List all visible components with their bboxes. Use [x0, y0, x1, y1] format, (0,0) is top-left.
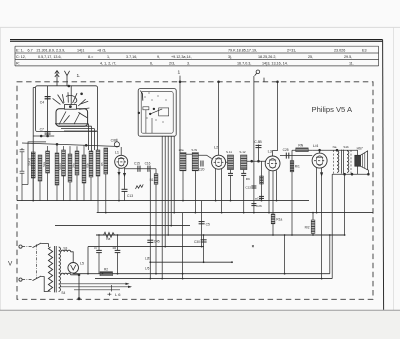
- rectifier filament: [71, 265, 76, 270]
- valve L2 leg a: [215, 169, 217, 201]
- wire IF to grid: [198, 155, 211, 158]
- AVC bus wire: [55, 225, 190, 227]
- heater line 1: [60, 283, 128, 285]
- capacitor C16: [147, 166, 149, 172]
- speaker horn: [360, 151, 367, 170]
- resistor R1: [46, 151, 50, 173]
- node junction (232,262.2): [231, 261, 233, 263]
- wire S3 to rectifier: [71, 252, 74, 263]
- svg-text:3.: 3.: [187, 62, 190, 66]
- svg-text:11.: 11.: [349, 62, 354, 66]
- starburst contact rays: [58, 95, 64, 104]
- chassis dashed boundary box: [17, 82, 373, 299]
- decoupling wire: [150, 261, 232, 263]
- bank drop wires to earth bus: [33, 145, 106, 213]
- svg-text:21.301.8.9, 2.3.9,: 21.301.8.9, 2.3.9,: [37, 48, 66, 52]
- svg-text:C: 12,: C: 12,: [16, 55, 26, 59]
- node junction (165.2,246.6): [164, 246, 166, 248]
- wire anode supply line: [280, 155, 312, 157]
- valve L2: [212, 155, 226, 169]
- node junction (162.2,278.6): [161, 278, 163, 280]
- valve L1 leg a arrow: [118, 172, 120, 175]
- wire left rail: [32, 88, 34, 201]
- svg-text:C30: C30: [194, 240, 200, 244]
- valve L2 grid dashes: [214, 161, 216, 163]
- earth terminal Y: [64, 71, 69, 82]
- node junction (253.9,212.6): [253, 212, 255, 214]
- svg-text:1.: 1.: [77, 73, 81, 79]
- capacitor C4: [47, 86, 49, 136]
- svg-text:16.7,0.3,: 16.7,0.3,: [237, 62, 251, 66]
- capacitor C15: [137, 166, 139, 172]
- capacitor C7: [45, 131, 51, 133]
- node junction (117.5,273.7): [117, 273, 119, 275]
- output transformer core: [340, 150, 342, 174]
- svg-text:C5: C5: [206, 222, 210, 226]
- valve L3 grid dashes: [267, 163, 269, 165]
- node junction (243.7,212.6): [243, 212, 245, 214]
- svg-text:S.W: S.W: [191, 148, 197, 152]
- wire screen rail: [291, 150, 293, 235]
- valve L3 anode lead: [273, 82, 278, 156]
- svg-text:4, 1, 2, /7,: 4, 1, 2, /7,: [100, 62, 116, 66]
- IF coil S10a: [180, 153, 186, 171]
- loop wire left: [284, 235, 286, 274]
- resistor R8: [290, 161, 294, 172]
- valve L1 grid dashes: [117, 161, 119, 163]
- heater line 2: [60, 286, 131, 288]
- cathode bus wire: [73, 273, 330, 275]
- node junction (171.2,225.6): [170, 225, 172, 227]
- coil S6: [62, 150, 66, 176]
- svg-text:25,: 25,: [308, 55, 313, 59]
- valve L2 anode lead riser: [218, 82, 220, 155]
- svg-text:S.12: S.12: [239, 150, 246, 154]
- svg-text:C15: C15: [134, 161, 140, 165]
- wire transformer return rail: [331, 174, 333, 278]
- node junction (150.3,262.2): [149, 261, 151, 263]
- node junction (261.5,200.6): [261, 200, 263, 202]
- node junction (33.2,200.6): [32, 200, 34, 202]
- output transformer secondary: [347, 151, 349, 173]
- wire mains a dashdot: [22, 246, 32, 248]
- capacitor C26: [251, 203, 256, 205]
- node junction (273,235): [272, 234, 274, 236]
- valve L4 leg b: [321, 168, 323, 279]
- mains terminal b: [19, 278, 22, 281]
- valve L1 anode lead: [120, 147, 122, 155]
- node junction (329.8,235): [329, 234, 331, 236]
- node L3 riser: [277, 81, 279, 83]
- node junction (221.6,212.6): [221, 212, 223, 214]
- svg-text:Ra: Ra: [106, 237, 110, 241]
- rectifier valve L5: [68, 263, 79, 274]
- svg-text:C20: C20: [199, 168, 205, 172]
- svg-text:C16: C16: [145, 161, 151, 165]
- wire output top line: [312, 149, 357, 151]
- node output top b: [336, 149, 338, 151]
- node S4: [78, 274, 80, 276]
- svg-text:V: V: [8, 261, 13, 268]
- node junction (203.6,262.2): [203, 261, 205, 263]
- wire speaker bottom: [357, 166, 359, 174]
- svg-text:1,: 1,: [107, 55, 110, 59]
- heater line 2 arrow: [128, 286, 132, 288]
- bandswitch unit box outer: [138, 89, 176, 137]
- heater tick: [111, 285, 113, 291]
- capacitor C30: [201, 239, 207, 241]
- svg-text:C13: C13: [127, 194, 133, 198]
- tuner unit box T1: [35, 86, 97, 132]
- output transformer shield dashed: [332, 150, 334, 174]
- node junction (88,273.7): [87, 273, 89, 275]
- resistor Ra zigzag: [104, 232, 115, 237]
- coil S7: [75, 151, 79, 175]
- svg-text:E: 1,: E: 1,: [16, 48, 24, 52]
- earth bus wire: [17, 200, 309, 202]
- IF coupling top wire: [186, 153, 192, 155]
- bank labels: [28, 157, 104, 170]
- svg-text:R5: R5: [100, 162, 104, 166]
- antenna input capacitor C2: [20, 170, 25, 172]
- valve L3 cathode: [269, 167, 275, 168]
- svg-text:18.25,26.2,: 18.25,26.2,: [258, 55, 276, 59]
- node junction (150.3,278.6): [149, 278, 151, 280]
- output transformer primary: [337, 151, 339, 173]
- node box left: [138, 112, 140, 114]
- node junction (174.2,212.6): [173, 212, 175, 214]
- svg-text:29.5,: 29.5,: [344, 55, 352, 59]
- svg-text:9,: 9,: [157, 55, 160, 59]
- capacitor C5: [199, 221, 205, 223]
- valve L1 leg b: [124, 168, 126, 189]
- svg-text:RN: RN: [298, 143, 303, 147]
- svg-text:R/2: R/2: [305, 225, 310, 229]
- capacitor C21 under S11: [228, 172, 233, 174]
- anode wire L1: [125, 168, 157, 170]
- capacitor C45: [147, 239, 153, 241]
- capacitor C5 rail: [201, 201, 203, 247]
- node chassis riser 1: [179, 81, 181, 83]
- capacitor C24 under S12: [241, 172, 246, 174]
- wire speaker top: [357, 150, 359, 155]
- wire bundle w4: [170, 136, 172, 225]
- AVC column rail b: [261, 161, 263, 200]
- resistor R11: [271, 214, 275, 224]
- node chassis ground: [78, 298, 80, 300]
- node grid feed: [85, 144, 87, 146]
- svg-text:20a: 20a: [179, 148, 184, 152]
- node L2 riser: [218, 81, 220, 83]
- resistor RN: [296, 148, 308, 152]
- wire pickup riser: [253, 76, 255, 161]
- svg-text:L/5: L/5: [145, 267, 150, 271]
- rotor contact arc: [66, 95, 77, 103]
- node junction (201.6,246.6): [201, 246, 203, 248]
- IF coil S12: [241, 155, 247, 170]
- valve L1 anode: [118, 158, 124, 160]
- antenna terminal arrow: [55, 71, 59, 82]
- valve L4: [312, 153, 327, 168]
- wire bundle w2: [164, 136, 166, 246]
- valve L4 grid dashes: [314, 160, 316, 162]
- node grid a: [251, 160, 253, 162]
- node junction (316.6,212.6): [316, 212, 318, 214]
- svg-text:C4: C4: [40, 101, 44, 105]
- IF coil S11: [228, 155, 234, 170]
- resistor R9: [260, 176, 264, 184]
- svg-text:+9.12,3a,14,: +9.12,3a,14,: [171, 55, 192, 59]
- switch window rect: [143, 107, 149, 110]
- wire bundle w3: [167, 136, 169, 235]
- tuner drum inner stroke: [64, 115, 70, 122]
- tuner rotor window: [64, 105, 76, 110]
- wire antenna stub: [56, 82, 58, 86]
- node switch contact: [153, 108, 155, 110]
- scan page top edge: [0, 26, 400, 28]
- mains transformer core: [54, 246, 56, 292]
- node on box top: [68, 85, 70, 87]
- pickup terminal P: [255, 70, 264, 82]
- wire bundle from switch w1: [161, 136, 163, 278]
- svg-text:R1a: R1a: [276, 218, 282, 222]
- svg-text:3.7,16,: 3.7,16,: [126, 55, 137, 59]
- parts table grid: [15, 46, 379, 66]
- valve L3 leg a: [268, 170, 270, 212]
- antenna coupling loop wire: [28, 142, 46, 185]
- node junction (182.6,273.7): [182, 273, 184, 275]
- wire feedback rail: [344, 174, 346, 235]
- heater line 3: [74, 289, 120, 291]
- svg-text:14)3, 13,16, 14.: 14)3, 13,16, 14.: [262, 62, 288, 66]
- capacitor C22: [251, 185, 256, 187]
- HT bus wire: [97, 212, 373, 214]
- node junction (102.5,273.7): [102, 273, 104, 275]
- supply bus wire: [96, 234, 345, 236]
- switch inner drop wires: [145, 110, 147, 133]
- node junction (230.5,200.6): [230, 200, 232, 202]
- wire R12 rail: [312, 213, 314, 220]
- resistor R3: [68, 154, 72, 182]
- wire earth stub: [66, 82, 68, 86]
- scan page right edge: [393, 27, 395, 310]
- node junction (313,212.6): [312, 212, 314, 214]
- capacitor C8B: [256, 144, 262, 146]
- valve L1 cathode: [118, 165, 124, 166]
- svg-text:L2: L2: [214, 146, 218, 150]
- svg-text:C22: C22: [245, 186, 251, 190]
- svg-text:1: 1: [178, 70, 181, 76]
- resistor R2: [100, 272, 113, 276]
- svg-text:8.=: 8.=: [88, 55, 93, 59]
- node junction (269,212.6): [268, 212, 270, 214]
- node on ray: [81, 93, 83, 95]
- valve L1 leg a: [118, 168, 120, 201]
- svg-text:2=31,: 2=31,: [287, 48, 296, 52]
- valve L4 anode: [316, 156, 323, 158]
- capacitor C28: [98, 235, 100, 250]
- sheet top border line: [10, 39, 383, 41]
- scan page bottom edge: [0, 309, 400, 311]
- valve L4 cathode: [316, 164, 322, 165]
- valve L3 leg c: [276, 170, 278, 200]
- heater winding S4: [61, 273, 71, 275]
- svg-text:C45: C45: [154, 239, 160, 243]
- svg-text:6,: 6,: [150, 62, 153, 66]
- wire S4 to chassis: [71, 275, 79, 299]
- svg-text:HS7: HS7: [357, 146, 363, 150]
- node junction (276.5,200.6): [276, 200, 278, 202]
- capacitor C20: [200, 161, 202, 167]
- resistor R12: [311, 220, 315, 233]
- switch S2b blade: [33, 276, 42, 281]
- node output bottom b: [351, 173, 353, 175]
- capacitor C13: [122, 188, 128, 190]
- valve L2 leg b: [221, 169, 223, 213]
- valve L3 leg b: [272, 171, 274, 214]
- wire speaker return: [367, 170, 369, 174]
- wire C45 rail: [149, 170, 151, 279]
- scan page left edge: [0, 27, 2, 310]
- grid feed wire: [22, 143, 119, 147]
- node junction (156,273.7): [155, 273, 157, 275]
- tuner drum plate: [56, 109, 88, 126]
- switch link dashdot: [36, 244, 38, 278]
- svg-text:S.11: S.11: [226, 150, 232, 154]
- node junction (195.4,212.6): [195, 212, 197, 214]
- node junction (284.6,273.7): [284, 273, 286, 275]
- svg-text:R9: R9: [246, 177, 250, 181]
- svg-text:Na: Na: [333, 145, 337, 149]
- svg-text:L1: L1: [115, 151, 119, 155]
- node junction (119,200.6): [118, 200, 120, 202]
- valve L2 anode: [215, 158, 222, 160]
- svg-text:S4: S4: [61, 291, 65, 295]
- svg-text:S2a: S2a: [42, 162, 46, 167]
- bandswitch unit box inner: [141, 92, 173, 134]
- svg-text:23.026: 23.026: [334, 48, 345, 52]
- wire L2 to IF2: [226, 161, 228, 163]
- coil S8: [82, 155, 86, 183]
- wire mains b dashdot: [22, 279, 32, 281]
- valve L1 leg b arrow: [123, 173, 125, 176]
- svg-text:6.7: 6.7: [28, 48, 33, 52]
- node output bottom a: [344, 173, 346, 175]
- wire switch to primary b: [41, 277, 49, 292]
- node junction (168.2,235): [167, 234, 169, 236]
- stray mark x: [252, 245, 254, 247]
- svg-text:C7: C7: [40, 127, 44, 131]
- node junction (117.5,235): [117, 234, 119, 236]
- svg-text:L5: L5: [80, 261, 84, 265]
- node junction (313,235): [312, 234, 314, 236]
- svg-text:L 6: L 6: [115, 292, 121, 297]
- svg-text:L/4: L/4: [313, 144, 318, 148]
- switch S2a blade: [33, 243, 42, 248]
- return bus wire: [95, 278, 332, 280]
- wire screen bus left end: [87, 247, 89, 274]
- capacitor C23: [259, 195, 264, 197]
- switch wafer dots: [144, 92, 166, 122]
- valve L4 leg b arrow: [320, 172, 322, 175]
- valve L3: [265, 156, 280, 171]
- capacitor C29: [117, 235, 119, 250]
- coil S9: [96, 150, 100, 176]
- valve L2 cathode: [216, 165, 222, 166]
- node junction (182.6,278.6): [182, 278, 184, 280]
- svg-text:+8 /3,: +8 /3,: [97, 48, 106, 52]
- svg-text:3),: 3),: [228, 55, 232, 59]
- switch hook wire: [140, 91, 142, 101]
- ground symbol L6: [107, 293, 111, 296]
- sheet right border line: [383, 40, 384, 310]
- wire output bottom line: [332, 173, 368, 175]
- HT winding S3: [61, 250, 71, 252]
- svg-text:0.5,7,17, 13.6,: 0.5,7,17, 13.6,: [38, 55, 62, 59]
- svg-text:C26: C26: [256, 204, 262, 208]
- svg-text:Philips V5 A: Philips V5 A: [312, 105, 353, 114]
- resistor B1: [154, 174, 158, 184]
- valve L3 anode: [269, 159, 276, 161]
- node junction (284.6,235): [284, 234, 286, 236]
- node junction (203.6,235): [203, 234, 205, 236]
- svg-text:E3: E3: [362, 48, 367, 52]
- svg-text:2/3,: 2/3,: [169, 62, 175, 66]
- svg-text:R/1: R/1: [295, 165, 300, 169]
- mains transformer secondary: [59, 247, 61, 291]
- parts table row E values: [16, 48, 367, 65]
- node junction (105.8,212.6): [105, 212, 107, 214]
- coil S1: [31, 152, 35, 178]
- node C7 link: [40, 135, 42, 137]
- coil S9b: [104, 148, 108, 174]
- node junction (99,235): [98, 234, 100, 236]
- antenna input capacitor C1: [21, 148, 23, 150]
- heater line 1 arrow: [126, 283, 130, 285]
- resistor R5: [89, 151, 93, 177]
- coil S5: [55, 153, 59, 185]
- svg-text:S1b: S1b: [343, 145, 349, 149]
- capacitor C30 rail: [203, 235, 205, 262]
- svg-text:C25: C25: [283, 148, 289, 152]
- rectifier cathode wire: [72, 272, 74, 275]
- AVC column rail a: [253, 161, 255, 212]
- svg-text:24a: 24a: [71, 163, 75, 168]
- capacitor C8B rail: [258, 144, 260, 161]
- wire grid line L3: [247, 160, 265, 162]
- node junction (215.6,200.6): [215, 200, 217, 202]
- coil bank nested wires: [55, 123, 89, 125]
- svg-text:L3: L3: [268, 149, 272, 153]
- node speaker bottom: [368, 173, 370, 175]
- svg-text:c8: c8: [113, 246, 117, 250]
- wire bundle w5: [173, 136, 175, 212]
- node junction (344.6,235): [344, 234, 346, 236]
- trimmer capacitor C8: [114, 142, 119, 147]
- svg-text:C/8: C/8: [111, 138, 116, 142]
- svg-text:14)1: 14)1: [77, 48, 84, 52]
- speaker magnet: [355, 155, 361, 166]
- screen bus wire: [88, 246, 204, 248]
- valve L1: [115, 155, 128, 168]
- mains terminal a: [19, 245, 22, 248]
- switch arm: [150, 109, 162, 114]
- svg-text:3SA11: 3SA11: [28, 157, 32, 166]
- wire IF1b bottom drop: [194, 171, 196, 213]
- mains transformer primary: [48, 247, 52, 292]
- node junction (321.6,278.6): [321, 278, 323, 280]
- switch contact block: [159, 108, 169, 116]
